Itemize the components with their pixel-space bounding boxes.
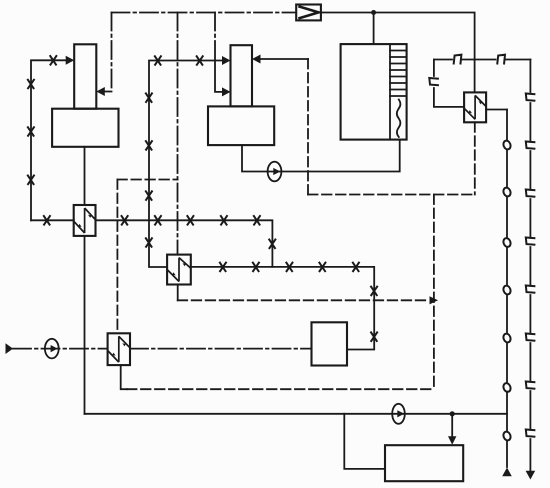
wire: T2 second admission branch xyxy=(215,61,223,92)
heat exchanger HX4 xyxy=(464,92,486,122)
p-mark on left branch xyxy=(429,78,439,85)
wire: dashed extraction header y=194 xyxy=(308,194,475,196)
wire: HX3 drain riser xyxy=(121,365,127,389)
node: junction dot on bottom header xyxy=(450,411,455,416)
wire: p-line left branch to HX4 xyxy=(434,60,464,107)
wire: HX4 condensate to o-line xyxy=(486,109,507,111)
wire: T1 extraction feed line with crosses xyxy=(31,60,67,220)
wire: HX2 drain dashed to extraction main with arrow xyxy=(178,299,430,301)
wire: dash-dot drop to turbine T1 inlet xyxy=(111,13,113,92)
cross marks on T1 feed line xyxy=(27,55,57,185)
cross marks on HX2 right line xyxy=(219,262,377,342)
wire: heating network main (dash-dot) into deaerator tank xyxy=(13,348,312,350)
wire: p-marked steam line vertical right xyxy=(529,60,531,471)
wire: HX2 drain down xyxy=(177,285,179,301)
wire: T2 right side feed from extraction network xyxy=(260,58,309,60)
p-marks on right steam line xyxy=(526,94,536,437)
tank D1 (deaerator) xyxy=(312,322,348,365)
arrow into makeup tank top xyxy=(448,436,456,445)
turbine T1 high-pressure cylinder xyxy=(74,44,96,108)
wire: T2 extraction feed line with crosses xyxy=(149,61,223,268)
heat exchanger HX2 xyxy=(167,255,191,285)
wire: dashed extraction from T2 down xyxy=(307,59,309,195)
wire: HX1 heating line left xyxy=(31,219,74,221)
wire: dashed drop from HX4 bottom xyxy=(474,122,476,194)
wire: T1 condensate down through HX1 xyxy=(84,147,86,205)
turbine T1 generator block xyxy=(52,109,118,147)
o-marks on drain line xyxy=(502,140,511,442)
arrow into T1 left side xyxy=(66,56,75,65)
pump P1 xyxy=(268,162,282,182)
wire: dashed drain bottom header xyxy=(127,388,434,390)
cross marks on T2 feed line xyxy=(145,55,203,247)
wire: steam header solid section from reducing valve to downcomer xyxy=(321,13,475,93)
arrow into T2 right side xyxy=(252,55,261,64)
wire: HX1 bottom condensate to lower header xyxy=(84,236,86,414)
arrow down terminal of p-line xyxy=(526,471,536,480)
heat exchanger HX1 xyxy=(74,205,96,236)
arrow network inlet xyxy=(6,343,14,354)
wire: dash-dot drop to turbine T2 inlet xyxy=(214,13,216,61)
tank D2 (bottom) xyxy=(385,445,463,481)
wire: dash-dot drop to HX2 top xyxy=(177,13,179,255)
wire: dashed steam supply to HX3 top xyxy=(116,180,118,334)
wire: steam line with p-marks horizontal xyxy=(434,59,531,61)
wire: main steam header (dash-dot, top) xyxy=(112,12,297,14)
node: junction dot boiler steam outlet xyxy=(371,10,376,15)
pump P2 network pump xyxy=(45,339,59,359)
wire: branch to tank left side xyxy=(344,414,385,469)
cross marks on HX1 line xyxy=(43,215,276,249)
arrow into T1 right side xyxy=(96,87,105,96)
p-marks on horizontal steam line xyxy=(454,55,505,65)
wire: dashed extraction vertical x=434 xyxy=(433,195,435,389)
arrow into T2 left side xyxy=(222,56,231,65)
wire: branch down into makeup tank xyxy=(451,414,453,437)
wire: stub into T1 right side xyxy=(104,91,112,93)
wire: HX1 heating line right with crosses xyxy=(96,220,273,267)
wire: T2 condensate line to pump P1 and boiler riser xyxy=(242,140,400,172)
wire: o-marked drain line vertical xyxy=(506,110,508,468)
pump P3 feed pump xyxy=(392,404,405,424)
arrow into T2 left side lower xyxy=(222,87,231,96)
wire: condensate bottom header xyxy=(85,413,508,415)
turbine T2 high-pressure cylinder xyxy=(231,45,253,106)
arrow into dashed vertical xyxy=(430,296,439,304)
turbine T2 generator block xyxy=(208,106,274,145)
wire: dashed link at y=179 xyxy=(117,179,177,181)
wire: boiler steam riser xyxy=(373,13,375,45)
wire: HX2 steam line right with crosses xyxy=(191,267,374,350)
arrow up terminal of o-line xyxy=(502,468,512,477)
reducing valve ROU xyxy=(296,5,321,21)
boiler B1 xyxy=(341,44,407,140)
heat exchanger HX3 xyxy=(108,333,130,365)
